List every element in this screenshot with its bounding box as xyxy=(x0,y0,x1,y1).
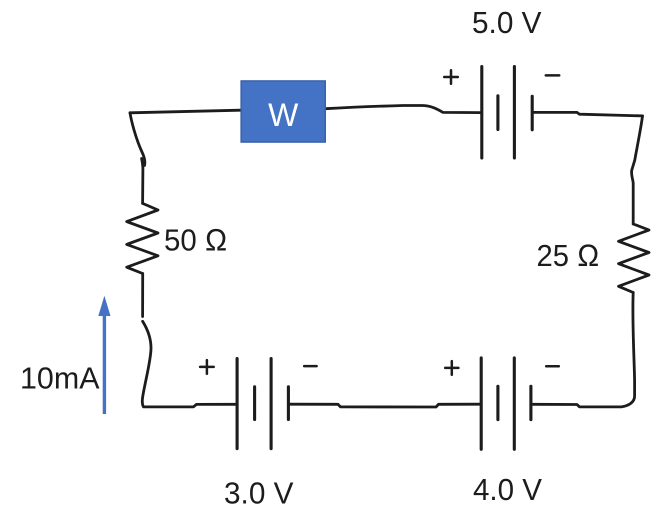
svg-text:25 Ω: 25 Ω xyxy=(537,238,600,273)
svg-text:10mA: 10mA xyxy=(20,360,100,395)
svg-text:W: W xyxy=(268,97,299,133)
svg-text:50 Ω: 50 Ω xyxy=(164,222,228,257)
svg-text:4.0 V: 4.0 V xyxy=(473,472,542,507)
svg-text:5.0 V: 5.0 V xyxy=(472,5,542,40)
svg-text:3.0 V: 3.0 V xyxy=(224,475,294,510)
